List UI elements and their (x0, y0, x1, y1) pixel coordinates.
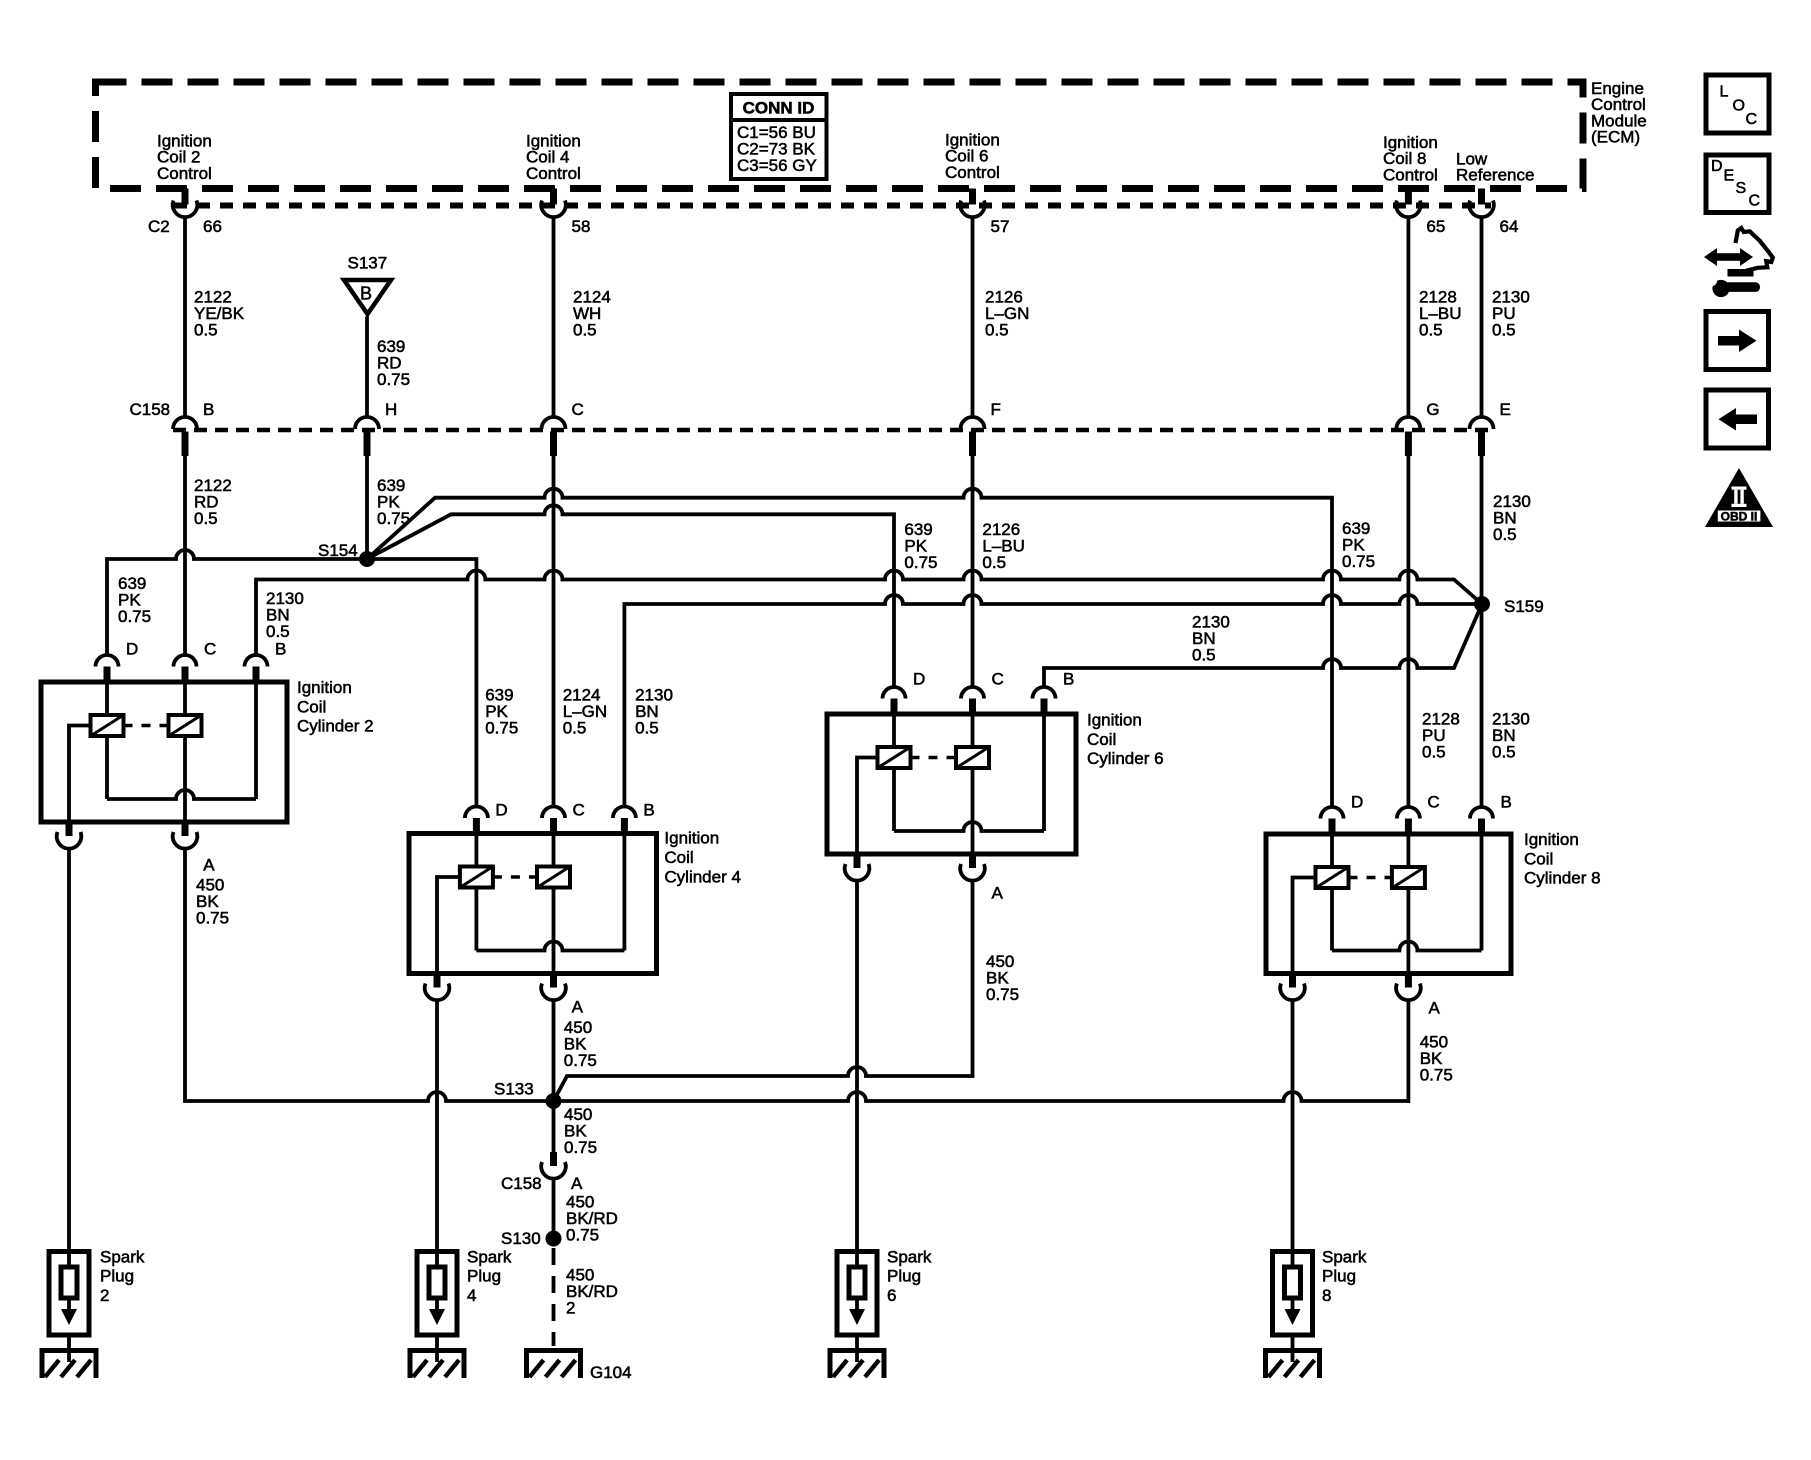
label 2130 BN 0.5 (below S159) (1492, 710, 1530, 762)
wire 2130 BN 0.5 (coil 6 pin B to S159) (1044, 604, 1482, 687)
label 2130 PU 0.5 (1492, 288, 1530, 340)
svg-text:0.5: 0.5 (1192, 646, 1216, 665)
svg-text:D: D (1351, 793, 1363, 812)
ground (spark plug 2) (41, 1348, 97, 1378)
svg-text:Coil: Coil (1524, 849, 1553, 868)
wire 639 PK 0.75 (C158 H to S154) (365, 456, 369, 553)
svg-text:C: C (204, 639, 216, 658)
svg-text:Plug: Plug (887, 1267, 921, 1286)
spark plug 2 (49, 1247, 145, 1362)
wire 639 PK 0.75 (S154 to coil 4 pin D) (367, 559, 476, 807)
wire 639 PK 0.75 (S154 to coil 2 pin D) (107, 550, 367, 655)
label C158 (top row) (130, 400, 171, 419)
svg-text:Cylinder 4: Cylinder 4 (664, 867, 741, 886)
ECM pin 58 connector (541, 189, 590, 237)
label 639 RD 0.75 (377, 337, 410, 389)
label 639 PK 0.75 (coil 2 D) (118, 574, 151, 626)
label A 450 BK 0.75 (coil 2 A) (196, 876, 229, 928)
ground (spark plug 8) (1265, 1348, 1321, 1378)
svg-text:A: A (572, 997, 584, 1016)
svg-text:(ECM): (ECM) (1591, 128, 1640, 147)
label Ignition Coil 6 Control (945, 131, 1000, 182)
svg-text:S133: S133 (494, 1080, 534, 1099)
ECM pin 57 connector (960, 189, 1009, 237)
label 2130 BN 0.5 (above S159) (1493, 492, 1531, 544)
svg-text:C2: C2 (148, 217, 170, 236)
label 450 BK 0.75 (coil 6 A) (986, 952, 1019, 1004)
ECM pin 65 connector (1396, 189, 1445, 237)
label Ignition Coil 4 Control (526, 132, 581, 183)
wire 2128 L-BU 0.5 (ECM 65 to C158 G) (1407, 218, 1411, 417)
label 2122 RD 0.5 (194, 476, 232, 528)
svg-text:2: 2 (566, 1299, 575, 1318)
svg-text:Control: Control (1383, 165, 1438, 184)
label 639 PK 0.75 (above S154) (377, 476, 410, 528)
wire 450 BK 0.75 (S133 to coil 6 A) (554, 880, 973, 1101)
wire 2130 PU 0.5 (ECM 64 to C158 E) (1480, 218, 1484, 417)
ECM connector face dotted line (174, 203, 1491, 209)
svg-text:Ignition: Ignition (1087, 711, 1142, 730)
label 450 BK/RD 0.75 (566, 1193, 618, 1245)
label 2128 PU 0.5 (1422, 710, 1460, 762)
svg-text:0.75: 0.75 (1342, 552, 1375, 571)
svg-text:0.5: 0.5 (985, 321, 1009, 340)
svg-text:C: C (1746, 111, 1758, 128)
svg-text:0.5: 0.5 (266, 622, 290, 641)
svg-text:0.75: 0.75 (1420, 1065, 1453, 1084)
wire 2124 WH 0.5 (ECM 58 to C158 C) (552, 218, 556, 417)
label Ignition Coil 8 Control (1383, 133, 1438, 184)
svg-text:C: C (572, 400, 584, 419)
svg-text:S137: S137 (348, 253, 388, 272)
wire 639 PK 0.75 (S154 to coil 6 pin D) (367, 505, 894, 687)
svg-text:Control: Control (157, 164, 212, 183)
spark plug 4 (417, 1247, 512, 1362)
label 450 BK 0.75 (coil 4 A) (564, 1018, 597, 1070)
svg-text:Coil: Coil (1087, 730, 1116, 749)
label 2124 L-GN 0.5 (563, 685, 607, 737)
svg-text:8: 8 (1322, 1286, 1331, 1305)
wire 2130 BN 0.5 (S159 to coil 8 pin B) (1480, 604, 1484, 807)
wire 450 BK/RD 0.75 (C158 A to S130) (552, 1180, 556, 1238)
connector C158 pin H (355, 400, 397, 456)
svg-text:0.5: 0.5 (1492, 321, 1516, 340)
label 2130 BN 0.5 (coil 6 B) (1192, 613, 1230, 665)
label 639 PK 0.75 (coil 8 D) (1342, 519, 1375, 571)
svg-text:0.5: 0.5 (1419, 321, 1443, 340)
label 450 BK 0.75 (coil 8 A) (1420, 1032, 1453, 1084)
svg-text:Coil: Coil (664, 848, 693, 867)
wire 450 BK 0.75 (coil 2 A to S133 to coil 8 A) (185, 848, 1408, 1101)
svg-text:0.75: 0.75 (564, 1051, 597, 1070)
svg-text:2: 2 (100, 1286, 109, 1305)
wire 639 PK 0.75 (S154 to coil 8 pin D) (367, 489, 1332, 807)
svg-text:0.75: 0.75 (564, 1138, 597, 1157)
svg-text:B: B (1501, 793, 1512, 812)
svg-text:D: D (1711, 158, 1723, 175)
svg-text:L: L (1720, 84, 1729, 101)
wire 2122 RD 0.5 (C158 B to coil 2 pin C) (183, 456, 187, 655)
spark plug 8 (1273, 1247, 1367, 1362)
svg-text:6: 6 (887, 1286, 896, 1305)
svg-text:Plug: Plug (1322, 1267, 1356, 1286)
connector C158 pin G (1396, 400, 1439, 456)
label Engine Control Module (ECM) (1591, 79, 1647, 147)
svg-text:0.75: 0.75 (196, 909, 229, 928)
svg-text:E: E (1500, 400, 1511, 419)
label Ignition Coil 2 Control (157, 132, 212, 183)
label 2130 BN 0.5 (coil 4 B) (635, 685, 673, 737)
splice S133 (494, 1080, 562, 1110)
connector C158 pin E (1470, 400, 1511, 456)
svg-text:Plug: Plug (100, 1267, 134, 1286)
svg-text:H: H (385, 400, 397, 419)
icon LOC box (1706, 75, 1769, 133)
svg-text:4: 4 (467, 1286, 476, 1305)
icon wiring-repair (arrows and wrench) (1704, 228, 1773, 297)
svg-text:Cylinder 8: Cylinder 8 (1524, 869, 1601, 888)
wire 2130 BN 0.5 (C158 E to S159) (1480, 456, 1484, 604)
svg-text:O: O (1733, 98, 1745, 115)
ECM pin 66 connector (148, 189, 222, 237)
svg-text:D: D (126, 639, 138, 658)
svg-text:Spark: Spark (1322, 1247, 1367, 1266)
ignition coil cylinder 4 (409, 801, 741, 1017)
svg-text:B: B (1063, 669, 1074, 688)
ground G104 (526, 1348, 632, 1382)
svg-text:Ignition: Ignition (1524, 830, 1579, 849)
svg-text:G104: G104 (590, 1363, 632, 1382)
connector C158 dashed line (173, 428, 1494, 433)
connector C158 pin F (961, 400, 1001, 456)
svg-text:0.5: 0.5 (1493, 525, 1517, 544)
wire coil 4 secondary to spark plug 4 (435, 1000, 439, 1252)
label 2126 L-GN 0.5 (985, 288, 1029, 340)
wire 450 BK 0.75 (coil 4 A to S133) (552, 1000, 556, 1153)
label Low Reference (1456, 150, 1534, 185)
connector C158 pin A (mid) (501, 1152, 583, 1193)
svg-text:D: D (913, 669, 925, 688)
svg-text:0.5: 0.5 (194, 321, 218, 340)
ECM module dashed box (Engine Control Module) (96, 82, 1584, 189)
label 450 BK/RD 2 (566, 1266, 618, 1318)
svg-text:C: C (1749, 193, 1761, 210)
wire 450 BK/RD 2 (S130 to G104, other circuits) (552, 1248, 556, 1346)
svg-text:C158: C158 (130, 400, 171, 419)
svg-text:B: B (360, 284, 372, 304)
svg-text:58: 58 (572, 217, 591, 236)
svg-text:57: 57 (991, 217, 1010, 236)
svg-text:0.75: 0.75 (986, 985, 1019, 1004)
svg-text:C: C (1427, 793, 1439, 812)
svg-text:D: D (495, 801, 507, 820)
wire 2126 L-BU 0.5 (C158 F to coil 6 pin C) (971, 456, 975, 687)
svg-text:Spark: Spark (467, 1247, 512, 1266)
spark plug 6 (837, 1247, 932, 1362)
wire 2130 BN 0.5 (coil 2 pin B to S159) (256, 571, 1482, 655)
label 639 PK 0.75 (coil 4 D) (485, 685, 518, 737)
svg-text:A: A (203, 856, 215, 875)
splice S137 feed triangle B (344, 253, 391, 314)
ground (spark plug 4) (409, 1348, 465, 1378)
wire coil 8 secondary to spark plug 8 (1291, 1000, 1295, 1252)
svg-text:C3=56 GY: C3=56 GY (737, 156, 817, 175)
wire coil 6 secondary to spark plug 6 (855, 880, 859, 1252)
splice S159 (1474, 596, 1544, 616)
icon back arrow box (1706, 390, 1769, 448)
svg-text:0.75: 0.75 (485, 718, 518, 737)
svg-text:0.5: 0.5 (1422, 743, 1446, 762)
connector C158 pin B (173, 400, 214, 456)
svg-text:C158: C158 (501, 1174, 542, 1193)
label 2122 YE/BK 0.5 (194, 288, 245, 340)
wire coil 2 secondary to spark plug 2 (67, 848, 71, 1252)
svg-text:0.75: 0.75 (904, 553, 937, 572)
CONN ID table (731, 94, 827, 179)
svg-text:0.75: 0.75 (377, 370, 410, 389)
wire 639 RD 0.75 (S137 to C158 H) (365, 317, 369, 418)
splice S154 (318, 541, 375, 567)
svg-text:S130: S130 (501, 1229, 541, 1248)
wire 2126 L-GN 0.5 (ECM 57 to C158 F) (971, 218, 975, 417)
svg-text:Reference: Reference (1456, 166, 1534, 185)
svg-text:E: E (1724, 168, 1735, 185)
svg-text:A: A (571, 1174, 583, 1193)
label 639 PK 0.75 (coil 6 D) (904, 520, 937, 572)
ignition coil cylinder 8 (1266, 793, 1601, 1018)
wire 2128 PU 0.5 (C158 G to coil 8 pin C) (1407, 456, 1411, 807)
svg-text:Spark: Spark (887, 1247, 932, 1266)
svg-text:Ignition: Ignition (664, 829, 719, 848)
label 2124 WH 0.5 (573, 288, 611, 340)
svg-text:A: A (992, 883, 1004, 902)
svg-text:S: S (1736, 180, 1747, 197)
svg-text:A: A (1429, 999, 1441, 1018)
label 2126 L-BU 0.5 (982, 520, 1025, 572)
ignition coil cylinder 2 (41, 639, 374, 874)
svg-text:CONN ID: CONN ID (743, 99, 815, 118)
svg-text:66: 66 (203, 217, 222, 236)
svg-text:B: B (643, 801, 654, 820)
svg-text:0.5: 0.5 (563, 718, 587, 737)
svg-text:C: C (573, 801, 585, 820)
label 450 BK 0.75 (below S133) (564, 1105, 597, 1157)
wire 2124 L-GN 0.5 (C158 C to coil 4 pin C) (552, 456, 556, 807)
splice S130 (501, 1229, 562, 1248)
ECM pin 64 connector (1469, 189, 1518, 237)
wire 2122 YE/BK 0.5 (ECM 66 to C158 B) (183, 218, 187, 417)
icon OBD II triangle (1705, 468, 1773, 527)
svg-text:B: B (203, 400, 214, 419)
svg-text:Ignition: Ignition (297, 678, 352, 697)
svg-text:64: 64 (1500, 217, 1519, 236)
svg-text:F: F (991, 400, 1001, 419)
label 2130 BN 0.5 (coil 2 B) (266, 589, 304, 641)
svg-text:Plug: Plug (467, 1267, 501, 1286)
svg-text:OBD II: OBD II (1721, 510, 1758, 524)
label 2128 L-BU 0.5 (1419, 288, 1462, 340)
svg-text:Spark: Spark (100, 1247, 145, 1266)
ground (spark plug 6) (829, 1348, 885, 1378)
wire 2130 BN 0.5 (coil 4 pin B to S159) (624, 595, 1476, 807)
svg-text:0.5: 0.5 (1492, 743, 1516, 762)
svg-text:0.5: 0.5 (194, 509, 218, 528)
svg-text:Control: Control (526, 164, 581, 183)
svg-text:B: B (275, 639, 286, 658)
svg-text:0.5: 0.5 (573, 321, 597, 340)
svg-text:65: 65 (1426, 217, 1445, 236)
svg-text:Coil: Coil (297, 697, 326, 716)
icon DESC box (1706, 155, 1769, 213)
svg-text:S159: S159 (1504, 597, 1544, 616)
svg-text:0.75: 0.75 (118, 607, 151, 626)
svg-text:G: G (1426, 400, 1439, 419)
svg-text:Cylinder 2: Cylinder 2 (297, 717, 374, 736)
svg-text:Control: Control (945, 163, 1000, 182)
svg-text:Cylinder 6: Cylinder 6 (1087, 749, 1164, 768)
icon forward arrow box (1706, 312, 1769, 370)
svg-text:0.5: 0.5 (635, 718, 659, 737)
svg-text:0.5: 0.5 (982, 553, 1006, 572)
svg-text:C: C (992, 669, 1004, 688)
svg-text:0.75: 0.75 (566, 1226, 599, 1245)
ignition coil cylinder 6 (827, 669, 1164, 902)
connector C158 pin C (542, 400, 584, 456)
